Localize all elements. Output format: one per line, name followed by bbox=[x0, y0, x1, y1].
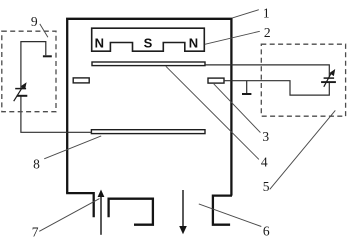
svg-text:2: 2 bbox=[264, 25, 271, 40]
svg-text:4: 4 bbox=[261, 155, 268, 170]
svg-text:7: 7 bbox=[32, 224, 39, 239]
svg-text:3: 3 bbox=[262, 129, 269, 144]
svg-text:8: 8 bbox=[33, 157, 40, 172]
svg-text:N: N bbox=[95, 36, 104, 51]
svg-text:N: N bbox=[189, 36, 198, 51]
svg-text:9: 9 bbox=[31, 14, 38, 29]
svg-text:1: 1 bbox=[263, 6, 270, 21]
svg-text:6: 6 bbox=[263, 223, 270, 238]
svg-text:S: S bbox=[144, 36, 153, 51]
svg-text:5: 5 bbox=[263, 179, 270, 194]
